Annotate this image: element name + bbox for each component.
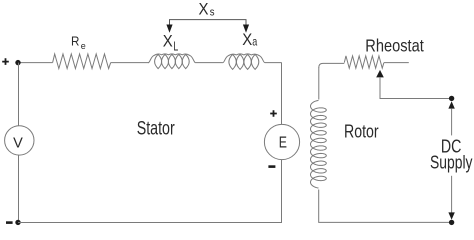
wire right vertical upper (corner to E) xyxy=(281,63,283,125)
svg-text:X: X xyxy=(242,31,252,49)
resistor Re xyxy=(53,54,111,69)
svg-text:L: L xyxy=(173,38,178,53)
wire left vertical upper (node to V) xyxy=(18,63,20,126)
svg-text:Rheostat: Rheostat xyxy=(365,36,424,56)
svg-text:V: V xyxy=(13,134,23,151)
svg-text:Rotor: Rotor xyxy=(344,121,379,142)
rheostat wiper arrow xyxy=(376,70,384,78)
wire top-left from node to resistor xyxy=(18,62,53,64)
wire left vertical lower (V to bottom node) xyxy=(18,155,20,222)
node D (dc bottom dot) xyxy=(449,220,454,225)
dc arrow up xyxy=(448,101,454,108)
svg-text:a: a xyxy=(252,34,257,48)
wire rheostat right stub xyxy=(384,62,409,64)
inductor XL xyxy=(148,54,196,69)
wire resistor to XL xyxy=(111,62,149,64)
node C (dc top dot) xyxy=(449,96,454,101)
svg-text:X: X xyxy=(163,32,173,50)
node A (+ terminal dot) xyxy=(15,60,20,65)
wiper stem wire xyxy=(380,77,452,99)
svg-text:X: X xyxy=(199,0,209,18)
dc supply vertical line lower xyxy=(451,176,453,213)
wire XL to Xa xyxy=(196,62,223,64)
minus sign at E xyxy=(268,165,275,168)
plus sign at E xyxy=(270,110,277,117)
inductor Xa xyxy=(223,54,266,70)
minus sign left xyxy=(6,221,13,224)
svg-text:E: E xyxy=(279,135,287,152)
svg-text:Supply: Supply xyxy=(430,152,473,172)
dc supply vertical line upper xyxy=(451,108,453,135)
voltmeter V circle xyxy=(5,126,34,155)
dc arrow down xyxy=(448,212,454,219)
rheostat zigzag xyxy=(344,56,384,68)
plus sign left xyxy=(2,58,9,65)
rotor left vertical wire xyxy=(318,67,320,100)
node B (bottom-left dot) xyxy=(15,220,20,225)
Xs dimension bracket xyxy=(166,20,249,33)
emf source E circle xyxy=(264,124,299,159)
wire rotor top (corner to rheostat) xyxy=(319,63,345,67)
svg-text:R: R xyxy=(71,34,79,49)
wire Xa to top-right corner xyxy=(265,62,282,64)
inductor rotor winding xyxy=(311,100,327,188)
wire bottom of stator loop xyxy=(18,160,282,223)
svg-text:Stator: Stator xyxy=(137,119,175,140)
svg-text:s: s xyxy=(210,7,215,19)
svg-text:e: e xyxy=(81,41,86,52)
rotor bottom wire xyxy=(319,190,452,223)
